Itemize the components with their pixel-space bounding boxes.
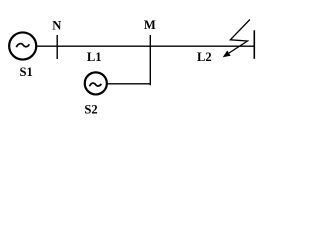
- svg-text:L2: L2: [197, 50, 212, 64]
- wire line L2: [150, 45, 254, 47]
- wire S1 to bus N: [36, 45, 57, 47]
- bus N: [56, 35, 58, 59]
- wire line L1: [57, 45, 150, 47]
- bus right end: [253, 30, 255, 59]
- bus M: [149, 35, 151, 85]
- svg-text:S2: S2: [84, 102, 97, 116]
- svg-text:M: M: [144, 18, 156, 32]
- fault lightning arrow: [223, 20, 250, 58]
- svg-text:S1: S1: [20, 65, 33, 79]
- svg-text:L1: L1: [87, 50, 102, 64]
- source S2: [85, 72, 107, 94]
- svg-text:N: N: [52, 19, 61, 33]
- source S1: [9, 32, 36, 59]
- wire S2 to bus M: [107, 83, 150, 85]
